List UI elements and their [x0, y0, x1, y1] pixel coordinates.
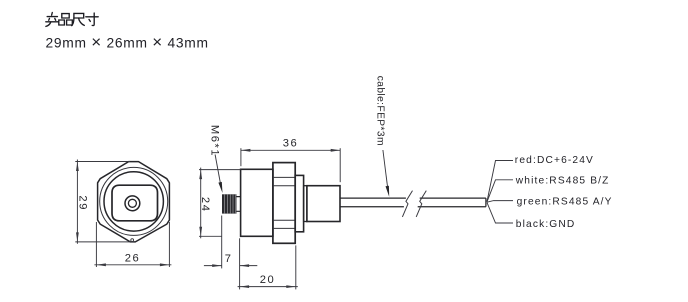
cable break marks: [402, 191, 426, 217]
dimension 24: [199, 168, 241, 239]
body cylinder: [241, 169, 273, 236]
svg-text:26: 26: [125, 252, 141, 264]
flange: [304, 186, 307, 222]
leader cable: [383, 150, 388, 191]
title 产品尺寸 (drawn strokes, CJK not in Liberation): [46, 13, 98, 27]
center hole: [128, 199, 136, 207]
nut facet lines: [273, 177, 295, 228]
svg-text:cable:FEP*3m: cable:FEP*3m: [375, 76, 386, 146]
svg-text:36: 36: [283, 138, 299, 150]
svg-text:green:RS485 A/Y: green:RS485 A/Y: [517, 196, 613, 207]
dimension 29: [75, 160, 134, 244]
svg-text:red:DC+6-24V: red:DC+6-24V: [515, 155, 594, 166]
leader M6*1: [215, 155, 221, 187]
dimension 20: [238, 238, 298, 289]
svg-text:M6*1: M6*1: [209, 125, 221, 157]
connector: [307, 186, 340, 222]
wire fan leaders: [487, 161, 513, 224]
svg-text:29mm × 26mm × 43mm: 29mm × 26mm × 43mm: [46, 32, 209, 51]
dimension 26: [94, 222, 171, 267]
center ring outer: [125, 196, 140, 211]
dimension 36: [241, 148, 340, 182]
svg-text:20: 20: [260, 274, 276, 286]
svg-text:7: 7: [225, 253, 233, 265]
cable lines: [340, 198, 486, 207]
svg-text:white:RS485 B/Z: white:RS485 B/Z: [515, 176, 610, 187]
rounded square face: [112, 185, 158, 221]
寸: [86, 13, 98, 26]
outer circle: [100, 167, 168, 235]
品: [59, 14, 72, 25]
dimension 7: [204, 216, 257, 269]
hexagon outline: [98, 162, 170, 242]
svg-text:black:GND: black:GND: [516, 219, 576, 230]
svg-text:29: 29: [76, 195, 88, 211]
thread M6: [222, 194, 241, 213]
step: [295, 175, 303, 231]
small circle at bottom vertex: [131, 239, 134, 242]
产: [46, 13, 59, 27]
hex nut section: [273, 163, 295, 244]
inner circle: [104, 172, 163, 231]
尺: [72, 13, 85, 25]
svg-text:24: 24: [199, 197, 211, 213]
